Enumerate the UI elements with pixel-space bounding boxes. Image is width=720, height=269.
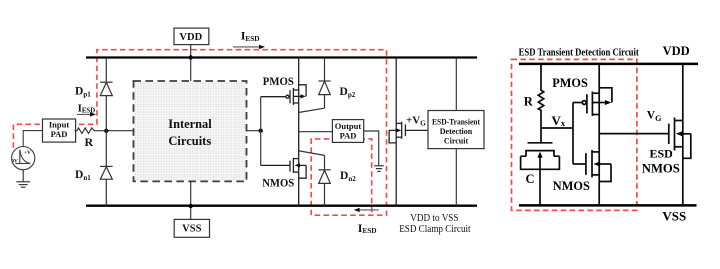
wire internal circuits output to gate bus bbox=[247, 130, 261, 132]
Output PAD box bbox=[332, 120, 363, 143]
svg-text:NMOS: NMOS bbox=[262, 177, 294, 189]
Internal Circuits block bbox=[134, 81, 247, 181]
red dashed box (ESD transient detection circuit) bbox=[512, 59, 637, 210]
transistor NMOS (output buffer) bbox=[261, 158, 306, 178]
svg-text:ESD-Transient: ESD-Transient bbox=[432, 117, 480, 126]
node input (junction dot) bbox=[104, 129, 108, 133]
VSS rail (right diagram) bbox=[519, 204, 697, 207]
node Vx wire bbox=[541, 127, 573, 129]
svg-text:PMOS: PMOS bbox=[263, 76, 294, 88]
svg-text:VDD to VSS: VDD to VSS bbox=[410, 213, 458, 224]
svg-text:PAD: PAD bbox=[51, 129, 68, 139]
svg-text:R: R bbox=[85, 135, 94, 149]
transistor PMOS (output buffer) bbox=[261, 85, 306, 105]
resistor R (right diagram) bbox=[538, 64, 543, 143]
svg-text:VSS: VSS bbox=[662, 209, 686, 223]
diode Dn1 bbox=[100, 131, 113, 206]
svg-text:VSS: VSS bbox=[182, 224, 201, 235]
svg-text:ESD Transient Detection Circui: ESD Transient Detection Circuit bbox=[519, 46, 639, 58]
wire output column (VDD to VSS through buffer) bbox=[298, 58, 300, 206]
capacitor C (MOS capacitor) bbox=[521, 143, 560, 206]
svg-text:Input: Input bbox=[49, 120, 69, 130]
arrow IESD top (right) bbox=[233, 46, 260, 48]
svg-text:+V: +V bbox=[24, 150, 31, 156]
VSS rail (left diagram) bbox=[86, 205, 477, 207]
ESD-Transient Detection Circuit block (left diagram) bbox=[428, 58, 484, 206]
arrow IESD input (right) bbox=[77, 113, 92, 115]
svg-text:NMOS: NMOS bbox=[642, 161, 680, 175]
wire Output PAD to ground bbox=[364, 131, 379, 166]
VDD rail (right diagram) bbox=[519, 63, 698, 66]
svg-text:Detection: Detection bbox=[440, 127, 473, 136]
wire gate bus vertical bbox=[260, 97, 262, 166]
VDD rail (left diagram) bbox=[86, 56, 477, 58]
svg-text:NMOS: NMOS bbox=[553, 178, 590, 193]
transistor ESD NMOS (right diagram) bbox=[669, 64, 691, 206]
Input PAD box bbox=[43, 119, 76, 142]
diode Dp2 bbox=[299, 58, 331, 113]
node gate bus (junction dot) bbox=[259, 129, 263, 133]
ESD pulse source bbox=[12, 147, 35, 170]
svg-text:0V: 0V bbox=[11, 158, 18, 164]
wire inverter output to Output PAD bbox=[299, 131, 333, 133]
svg-text:Output: Output bbox=[335, 121, 362, 131]
wire inverter column (right) bbox=[598, 64, 600, 206]
svg-text:VDD: VDD bbox=[663, 44, 690, 58]
svg-text:Internal: Internal bbox=[168, 116, 212, 131]
svg-text:ESD: ESD bbox=[650, 146, 674, 160]
svg-text:R: R bbox=[524, 94, 534, 108]
VSS supply box bbox=[174, 181, 209, 237]
transistor PMOS (right detection inverter) bbox=[573, 88, 612, 116]
wire gate bus (right inverter input) bbox=[572, 103, 574, 165]
ground (output pad grounded) bbox=[374, 166, 384, 172]
diode Dp1 bbox=[100, 58, 113, 131]
VDD supply box bbox=[174, 28, 209, 81]
transistor ESD clamp NMOS (left diagram) bbox=[389, 58, 428, 206]
svg-text:Circuit: Circuit bbox=[444, 136, 469, 145]
wire source to Input PAD bbox=[23, 131, 42, 147]
svg-text:ESD Clamp Circuit: ESD Clamp Circuit bbox=[399, 224, 471, 235]
ESD current path (red dashed) left segment at source bbox=[13, 50, 386, 216]
svg-text:VDD: VDD bbox=[179, 32, 202, 43]
arrow IESD bottom (left) bbox=[357, 209, 379, 211]
svg-text:PAD: PAD bbox=[340, 131, 357, 141]
resistor R (left diagram) bbox=[75, 128, 134, 134]
wire VG (inverter output to ESD NMOS gate) bbox=[599, 133, 669, 135]
svg-text:Circuits: Circuits bbox=[168, 133, 211, 148]
svg-text:C: C bbox=[526, 172, 535, 186]
ground (under ESD source) bbox=[16, 170, 30, 188]
diode Dn2 bbox=[299, 151, 331, 206]
transistor NMOS (right detection inverter) bbox=[573, 150, 611, 182]
svg-text:PMOS: PMOS bbox=[552, 76, 588, 90]
